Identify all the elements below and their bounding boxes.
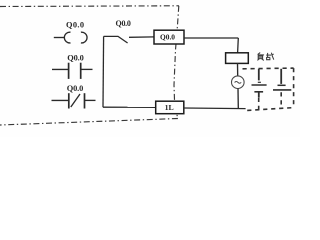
NO contact Q0.0 left lead <box>52 68 69 70</box>
svg-text:Q0.0: Q0.0 <box>116 19 131 28</box>
wire: left rail vertical <box>102 36 105 107</box>
battery B1 long plate <box>252 84 267 86</box>
svg-text:Q0.0: Q0.0 <box>67 84 84 93</box>
NC contact Q0.0 diagonal <box>71 94 80 107</box>
coil Q0.0 right parenthesis <box>81 32 87 43</box>
svg-text:Q0.0: Q0.0 <box>66 20 84 29</box>
relay contact: fixed terminal lead to Q0.0 box <box>129 36 155 38</box>
battery B1 dashed lead to bottom rail <box>258 98 260 110</box>
battery B1 bottom stub <box>258 92 260 97</box>
NC contact Q0.0 left bar <box>68 93 70 108</box>
NC contact Q0.0 right bar <box>84 93 86 108</box>
dashed right edge of DC alternative <box>293 68 295 108</box>
wire: AC source to bottom wire <box>237 89 239 109</box>
wire: right vertical down to load <box>237 38 240 53</box>
terminal box Q0.0 <box>154 30 184 44</box>
battery B1 lower plate <box>254 91 263 93</box>
AC source circle <box>232 76 245 89</box>
svg-text:Q0.0: Q0.0 <box>160 33 175 42</box>
wire: load box to AC source stub <box>237 63 239 76</box>
coil Q0.0 left parenthesis <box>64 32 70 43</box>
relay contact: left terminal and blade <box>104 36 128 43</box>
wire: bottom left horizontal to 1L box <box>103 106 156 108</box>
NC contact Q0.0 right lead <box>85 99 96 101</box>
label 负载 (load) stroke-drawn glyphs <box>257 53 273 61</box>
NO contact Q0.0 left bar <box>68 63 70 79</box>
wire: 1L box right to junction <box>184 107 246 110</box>
NO contact Q0.0 right bar <box>80 63 82 79</box>
terminal box 1L <box>156 101 184 114</box>
PLC boundary dash-dot right vertical line <box>174 6 179 119</box>
battery B1 short plate <box>258 81 261 83</box>
battery B2 long plate <box>273 89 291 91</box>
battery B2 short plate <box>278 84 286 86</box>
dashed bottom rail of DC alternative <box>247 108 293 111</box>
coil Q0.0 left lead <box>54 37 64 39</box>
battery B2 top stub <box>280 69 282 84</box>
NO contact Q0.0 right lead <box>81 68 93 70</box>
PLC boundary dash-dot bottom line <box>0 119 178 126</box>
svg-text:1L: 1L <box>165 103 174 112</box>
AC source tilde <box>235 82 242 84</box>
svg-text:Q0.0: Q0.0 <box>67 54 84 63</box>
NC contact Q0.0 left lead <box>52 99 69 101</box>
PLC boundary dash-dot top line <box>0 5 179 8</box>
wire: Q0.0 box to top right corner <box>184 37 238 39</box>
load box (rectangle) <box>226 53 249 64</box>
dashed top rail of DC alternative <box>243 67 294 70</box>
battery B1 top stub <box>258 69 260 81</box>
battery B2 dashed lead to bottom rail <box>280 92 282 107</box>
